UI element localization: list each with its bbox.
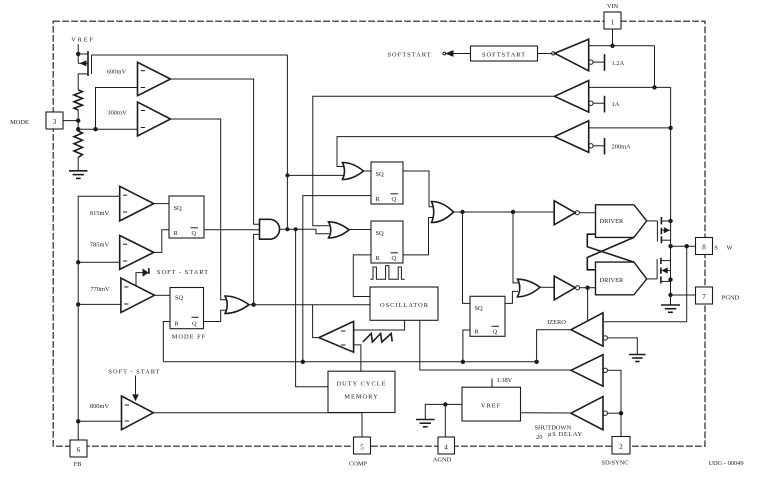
- block DUTY CYCLE MEMORY: [328, 371, 395, 412]
- comparator 1A current limit: [555, 81, 594, 113]
- flip-flop MODE FF: [170, 288, 204, 329]
- or-gate OR2 (mode select): [225, 296, 249, 314]
- wire: IZERO reference to ground: [607, 338, 637, 354]
- svg-text:Q: Q: [192, 321, 197, 328]
- svg-text:IZERO: IZERO: [547, 319, 566, 326]
- comparator SYNC: [571, 355, 607, 387]
- wire: driver1 to PMOS gate: [647, 220, 658, 222]
- or-gate OR4 (set of FF2): [329, 222, 350, 238]
- or-gate OR1 (skip set): [343, 163, 364, 180]
- pin 7 PGND: [696, 287, 713, 304]
- svg-text:MODE: MODE: [10, 119, 29, 126]
- or-gate OR5 (low-side drive): [518, 279, 541, 297]
- svg-text:815mV: 815mV: [90, 210, 110, 217]
- wire: duty cycle memory to COMP pin: [361, 413, 363, 438]
- ground (divider): [69, 171, 88, 179]
- label 785mV: [90, 242, 110, 249]
- label VIN: [607, 3, 619, 10]
- svg-text:VIN: VIN: [607, 3, 619, 10]
- label 770mV: [90, 286, 110, 293]
- label MODE FF: [172, 334, 207, 341]
- node: MODE pin junction: [76, 118, 80, 122]
- wire: buffer2 output to IZERO enable: [587, 288, 589, 321]
- wire: OR5 output to buffer2: [540, 286, 554, 288]
- flip-flop FF2: [371, 221, 403, 263]
- wire: VIN sense rail down PMOS source: [670, 87, 672, 246]
- wire: SW sense down to IZERO input: [686, 246, 688, 322]
- svg-text:COMP: COMP: [349, 461, 368, 468]
- wire: VIN vertical to sense rail: [654, 46, 656, 88]
- label V R E F: [71, 37, 95, 44]
- wire: 200mA top input from VIN rail: [589, 127, 671, 129]
- svg-text:AGND: AGND: [433, 457, 452, 464]
- reset bus from IZERO: [163, 361, 536, 363]
- svg-text:1.38V: 1.38V: [497, 377, 513, 384]
- comparator error (pwm): [319, 321, 354, 352]
- svg-text:R: R: [174, 230, 179, 237]
- svg-text:3: 3: [53, 118, 57, 126]
- wire: 800mV output to COMP node: [153, 412, 362, 414]
- node: VREF to PMOS source: [76, 52, 80, 56]
- current source 1A: [593, 96, 604, 113]
- svg-text:UDG - 00049: UDG - 00049: [708, 460, 743, 467]
- label FB: [74, 461, 82, 468]
- svg-text:SQ: SQ: [174, 205, 183, 212]
- comparator 815mV: [120, 186, 154, 221]
- wire: driver cross-couple B: [587, 234, 634, 262]
- svg-text:1: 1: [611, 19, 615, 27]
- node: FB to 800mV input: [76, 419, 122, 423]
- sawtooth symbol: [363, 334, 392, 343]
- node: PGND junction: [668, 293, 672, 297]
- wire: IZERO top input from SW sense: [603, 321, 687, 323]
- block OSCILLATOR: [370, 287, 438, 320]
- svg-text:R: R: [475, 329, 480, 336]
- wire: FF2 Q output to OR3 bottom input: [403, 218, 433, 255]
- svg-text:R: R: [175, 321, 180, 328]
- svg-text:SQ: SQ: [376, 171, 385, 178]
- wire: OR4 output to FF2 S: [349, 229, 371, 231]
- svg-text:785mV: 785mV: [90, 242, 110, 249]
- wire: error comparator output tap: [313, 305, 319, 338]
- wire: PGND node to pin 7: [671, 294, 696, 296]
- wire: AND output down to duty cycle memory: [296, 229, 328, 387]
- flip-flop FF-A (815/785 window): [169, 196, 204, 238]
- comparator 785mV: [120, 235, 154, 269]
- wire: VREF block to shutdown comparator: [521, 412, 572, 414]
- node: OR2 output junction: [251, 303, 255, 307]
- current source 1.2A: [593, 54, 604, 71]
- svg-text:1A: 1A: [612, 101, 620, 108]
- wire: OR3 output to gate driver buffer: [454, 211, 555, 213]
- wire: 1A comparator output down to OR4 top input: [313, 96, 555, 226]
- svg-text:OSCILLATOR: OSCILLATOR: [380, 302, 429, 309]
- comparator IZERO: [571, 313, 607, 346]
- label SOFT-START (mode): [157, 269, 209, 276]
- comparator 1.2A current limit: [555, 39, 593, 71]
- wire: oscillator to error comparator top input: [354, 320, 405, 330]
- wire: shutdown comparator input from pin 2: [607, 412, 621, 414]
- node: AND output up-branch to OR1 bottom input: [285, 55, 344, 229]
- node: pin2 branch: [619, 411, 623, 415]
- and-gate U-AND (power save logic): [260, 219, 280, 239]
- svg-text:SOFT - START: SOFT - START: [108, 369, 160, 376]
- label 1A: [612, 101, 620, 108]
- wire: AGND node down to pin 4: [444, 404, 446, 437]
- wire: driver cross-couple A: [587, 237, 634, 269]
- pin 6 FB: [70, 440, 87, 457]
- label 200mA: [612, 144, 632, 151]
- wire: OR3 output down to OR5 top input: [513, 212, 518, 283]
- svg-text:µS DELAY: µS DELAY: [548, 431, 583, 438]
- svg-text:600mV: 600mV: [107, 69, 127, 76]
- svg-text:SQ: SQ: [175, 295, 184, 302]
- svg-text:2: 2: [619, 443, 623, 451]
- svg-text:S: S: [714, 245, 718, 252]
- wire: 600mV comparator output down to AND gate top input: [171, 79, 260, 224]
- pin 8 SW: [696, 238, 713, 255]
- label IZERO: [547, 319, 566, 326]
- node: SW node: [668, 244, 672, 248]
- node: reset bus corner: [534, 360, 538, 364]
- node: SW sense branch: [685, 244, 689, 248]
- resistor R2 (lower divider): [74, 131, 82, 158]
- node: reset bus FF4: [461, 360, 465, 364]
- transistor Q2 power PMOS: [657, 217, 670, 243]
- label 300mV: [107, 110, 127, 117]
- label 815mV: [90, 210, 110, 217]
- flip-flop FF4: [470, 296, 505, 336]
- svg-text:SOFT - START: SOFT - START: [157, 269, 209, 276]
- wire: PMOS gate line across top: [92, 54, 288, 56]
- node: FB to 785mV input: [76, 260, 120, 264]
- flip-flop FF1: [371, 162, 403, 204]
- node: VIN junction: [610, 44, 614, 48]
- wire: AGND node to VREF block: [445, 403, 462, 405]
- svg-text:Q: Q: [192, 230, 197, 237]
- transistor Q1 PMOS of reference divider: [78, 51, 91, 90]
- svg-text:FB: FB: [74, 461, 82, 468]
- comparator 600mV: [138, 62, 171, 95]
- comparator 770mV: [121, 278, 155, 312]
- svg-text:SOFTSTART: SOFTSTART: [482, 52, 526, 59]
- svg-text:8: 8: [702, 244, 706, 252]
- node: AGND junction: [443, 402, 447, 406]
- svg-text:R: R: [376, 255, 381, 262]
- wire: OR1 output to FF1 S: [364, 170, 372, 172]
- comparator 200mA current limit: [555, 121, 594, 153]
- label 800mV: [90, 403, 110, 410]
- comparator 300mV: [138, 102, 171, 136]
- label 1.38V: [497, 377, 513, 384]
- wire: 1.2A top input from VIN: [589, 45, 655, 47]
- label SW: [714, 245, 733, 252]
- wire: softstart arrow out: [443, 50, 471, 57]
- svg-text:Q: Q: [392, 196, 397, 203]
- wire: SYNC comparator input from pin 2: [607, 370, 621, 436]
- wire: FB sense line: [78, 196, 120, 440]
- label UDG-00049: [708, 460, 743, 467]
- resistor R1 (upper divider): [74, 90, 82, 110]
- node: OR3 output junction b: [511, 210, 515, 214]
- label AGND: [433, 457, 452, 464]
- svg-text:MEMORY: MEMORY: [344, 394, 378, 401]
- label SHUTDOWN 20us DELAY: [535, 425, 583, 442]
- wire: oscillator sync input from SD comparator: [420, 320, 571, 370]
- comparator 800mV error amp: [122, 396, 154, 430]
- wire: OR3 output down to FF4 S input: [463, 212, 471, 303]
- svg-text:6: 6: [77, 446, 81, 454]
- svg-text:4: 4: [444, 444, 448, 452]
- block DRIVER (high side): [596, 205, 647, 238]
- node: NMOS body tie: [668, 277, 672, 281]
- node: reset bus FF1: [301, 360, 305, 364]
- node: tap branch: [93, 127, 97, 131]
- wire: divider middle: [77, 110, 79, 131]
- wire: FF1 R input from reset bus: [303, 196, 371, 362]
- svg-text:VREF: VREF: [481, 403, 501, 410]
- node: sense rail junction: [652, 85, 656, 89]
- wire: SW node to pin 8: [671, 245, 696, 247]
- wire: driver2 to NMOS gate: [647, 278, 657, 280]
- wire: FF-A Q output to AND gate middle input: [204, 229, 260, 231]
- node: AND output junction a: [285, 227, 289, 231]
- label SOFTSTART (signal): [388, 52, 432, 59]
- wire: reset bus up to IZERO output: [537, 330, 571, 362]
- comparator SHUTDOWN delay: [571, 397, 607, 430]
- label 1.2A: [612, 60, 625, 67]
- oscillator pulse train symbol: [370, 266, 404, 280]
- svg-text:300mV: 300mV: [107, 110, 127, 117]
- svg-text:W: W: [726, 245, 733, 252]
- wire: 1A top input from VIN rail: [589, 86, 671, 88]
- svg-text:800mV: 800mV: [90, 403, 110, 410]
- ground (IZERO reference): [629, 355, 646, 362]
- svg-text:SQ: SQ: [376, 230, 385, 237]
- wire: NMOS drain-source column: [670, 246, 672, 304]
- current source 200mA: [593, 138, 604, 155]
- block VREF: [462, 387, 521, 421]
- wire: 1.38V stub: [491, 379, 493, 388]
- wire: FF1 Q output to OR3 top input: [403, 171, 433, 207]
- svg-text:770mV: 770mV: [90, 286, 110, 293]
- node: OR3 output junction a: [460, 210, 464, 214]
- wire: 770mV output to MODE FF S input: [155, 294, 171, 296]
- wire: divider tap to 300mV comparator input: [78, 128, 137, 130]
- svg-text:SQ: SQ: [475, 305, 484, 312]
- node: FB to 770mV input: [76, 302, 121, 306]
- label PGND: [722, 295, 740, 302]
- soft-start arrow into 800mV comparator: [132, 376, 139, 402]
- wire: FF2 R input from oscillator: [353, 255, 371, 297]
- svg-text:SD/SYNC: SD/SYNC: [602, 460, 629, 467]
- svg-text:7: 7: [702, 293, 706, 301]
- node: 200mA sense tap: [668, 126, 672, 130]
- label COMP: [349, 461, 368, 468]
- label SD/SYNC: [602, 460, 629, 467]
- wire: OR2 output to oscillator: [249, 304, 370, 306]
- svg-text:DRIVER: DRIVER: [600, 277, 625, 284]
- node: AND output junction b: [294, 227, 298, 231]
- svg-text:Q: Q: [493, 329, 498, 336]
- label SOFT-START (error amp): [108, 369, 160, 376]
- wire: 785mV output to FF-A R input: [154, 230, 169, 253]
- soft-start arrow from MODE FF: [136, 268, 149, 286]
- svg-text:VREF: VREF: [71, 37, 95, 44]
- ground (analog): [416, 420, 435, 427]
- svg-text:DRIVER: DRIVER: [600, 218, 625, 225]
- svg-text:200mA: 200mA: [612, 144, 632, 151]
- block SOFTSTART: [471, 46, 538, 61]
- wire: 300mV comparator output down to OR2 top input: [171, 119, 227, 300]
- pin 1 VIN: [604, 12, 621, 46]
- wire: error comparator bottom input from duty cycle memory: [354, 345, 361, 371]
- label 600mV: [107, 69, 127, 76]
- pin 2 SD SYNC: [612, 437, 630, 455]
- svg-text:DUTY CYCLE: DUTY CYCLE: [336, 381, 386, 388]
- buffer U-B1 (high side): [554, 201, 595, 225]
- wire: AGND node to ground: [425, 404, 445, 419]
- wire: R2 to ground: [77, 158, 79, 171]
- svg-text:SOFTSTART: SOFTSTART: [388, 52, 432, 59]
- wire: FF4 R input from reset bus: [463, 330, 470, 362]
- svg-text:PGND: PGND: [722, 295, 740, 302]
- svg-text:R: R: [376, 196, 381, 203]
- wire: 815mV output to FF-A S input: [154, 203, 169, 205]
- node: PMOS source: [668, 219, 672, 223]
- IC boundary dashed border: [53, 21, 705, 446]
- pin 3 MODE: [46, 112, 78, 129]
- transistor Q3 power NMOS: [657, 258, 670, 284]
- node: divider tap junction: [76, 127, 80, 131]
- wire: AND output to OR4 bottom input: [280, 229, 329, 234]
- block DRIVER (low side): [596, 262, 647, 295]
- svg-text:Q: Q: [392, 255, 397, 262]
- wire: OR2 junction up to AND gate bottom input: [254, 234, 260, 304]
- svg-text:5: 5: [360, 444, 364, 452]
- wire: tap up to 600mV comparator input: [96, 88, 138, 130]
- wire: VREF label stub: [77, 44, 79, 54]
- node: buffer2 output junction: [585, 286, 589, 290]
- wire: MODE FF Q output to OR2 bottom input: [204, 310, 227, 321]
- label MODE: [10, 119, 29, 126]
- svg-text:1.2A: 1.2A: [612, 60, 625, 67]
- wire: 200mA comparator output to OR1: [337, 137, 555, 167]
- ground (power stage): [661, 305, 680, 312]
- svg-text:20: 20: [536, 434, 542, 441]
- pin 5 COMP: [354, 437, 371, 454]
- pin 4 AGND: [438, 437, 455, 454]
- wire: MODE FF R input from reset bus: [163, 322, 170, 362]
- buffer U-B2 (low side): [554, 276, 595, 300]
- or-gate OR3 (pwm combine): [432, 202, 454, 223]
- wire: FF4 Q output to OR5 bottom input: [505, 291, 518, 303]
- wire: 1.2A comparator output to softstart block: [538, 52, 555, 55]
- svg-text:MODE FF: MODE FF: [172, 334, 207, 341]
